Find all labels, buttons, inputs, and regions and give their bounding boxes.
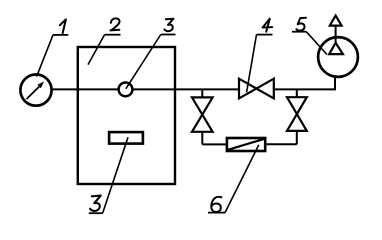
label 3 leader xyxy=(126,35,161,89)
label 2 leader xyxy=(88,35,105,65)
wire: stub main line to left bypass valve xyxy=(201,89,203,97)
label 1 digit xyxy=(60,19,66,33)
label 3 (top) digit xyxy=(164,19,173,31)
label 5 leader xyxy=(306,32,327,55)
wire: stub main line to right bypass valve xyxy=(296,89,298,97)
label 2 underline xyxy=(105,34,121,36)
label 6 digit xyxy=(211,197,221,212)
unit 5 (circle) xyxy=(318,37,358,77)
wire: left bypass valve to bypass line xyxy=(201,132,203,145)
label 2 digit xyxy=(111,18,120,30)
label 3 (bottom) digit xyxy=(90,196,101,211)
pressure gauge 1 (circle) xyxy=(20,75,51,106)
wire: bypass line right segment xyxy=(266,143,297,145)
label 4 leader xyxy=(247,35,257,93)
restrictor 6 (rectangle with diagonal) xyxy=(227,138,265,151)
label 4 underline xyxy=(257,34,273,36)
label 5 underline xyxy=(292,31,306,33)
label 1 underline xyxy=(53,34,68,36)
gauge needle xyxy=(27,82,44,100)
valve 4 (bowtie) xyxy=(239,79,274,99)
label 1 leader xyxy=(37,35,53,77)
label 3 underline xyxy=(161,34,176,36)
indicator 3 (small circle on line) xyxy=(119,83,133,97)
label 4 digit xyxy=(263,19,273,32)
label 5 digit xyxy=(296,18,306,31)
label 6 underline xyxy=(208,212,225,214)
label 3 bottom underline xyxy=(89,212,103,214)
unit 5 stem xyxy=(335,26,337,44)
wire: bypass line left segment xyxy=(202,143,226,145)
wire: main line from gauge to valve 4 xyxy=(53,88,239,90)
left bypass valve (vertical bowtie) xyxy=(192,97,213,131)
element 3 (small rectangle inside unit 2) xyxy=(109,132,143,144)
wire: valve 4 to riser of unit 5 xyxy=(274,77,335,90)
right bypass valve (vertical bowtie) xyxy=(287,97,307,131)
label 3 bottom leader xyxy=(103,137,128,213)
unit 5 top triangle (vent) xyxy=(330,16,342,26)
label 6 leader xyxy=(225,145,259,213)
unit 5 inner triangle xyxy=(329,43,343,54)
wire: right bypass valve to bypass line xyxy=(296,131,298,144)
unit 2 (large rectangle) xyxy=(78,47,175,184)
